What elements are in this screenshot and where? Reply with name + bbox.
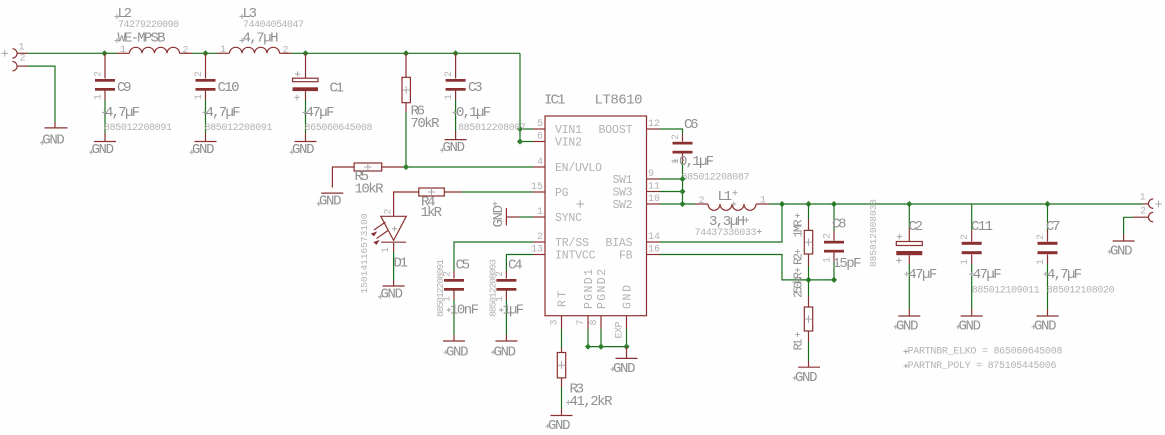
pin TR/SS (2)	[533, 232, 589, 250]
capacitor C6	[671, 117, 750, 184]
svg-text:885012208091: 885012208091	[104, 123, 172, 134]
inductor L3	[217, 6, 304, 57]
svg-text:41,2kR: 41,2kR	[570, 394, 614, 410]
svg-text:C1: C1	[330, 81, 345, 97]
wire input pin1 to rail	[28, 52, 105, 54]
node junction FB-R2	[805, 277, 811, 283]
svg-text:2: 2	[671, 134, 682, 140]
svg-text:1: 1	[960, 259, 971, 265]
svg-text:SW3: SW3	[613, 186, 633, 199]
pin SW3 (11)	[613, 182, 661, 200]
node junction rail-C8	[831, 201, 837, 207]
wire rail seg1	[105, 52, 118, 54]
svg-text:PG: PG	[555, 187, 569, 200]
svg-text:GND: GND	[959, 319, 982, 335]
pin SW2 (10)	[613, 194, 661, 212]
svg-text:885012208091: 885012208091	[205, 123, 273, 134]
svg-text:C9: C9	[117, 80, 132, 96]
resistor R6	[402, 53, 440, 167]
svg-text:1MR: 1MR	[792, 220, 806, 238]
svg-text:2: 2	[283, 46, 289, 57]
svg-text:885012208093: 885012208093	[487, 259, 498, 317]
node junction rail-C7	[1044, 201, 1050, 207]
pin GND (EXP) bottom	[615, 285, 635, 339]
node junction SW2	[679, 201, 685, 207]
capacitor C9	[89, 53, 172, 158]
svg-text:PGND1: PGND1	[583, 269, 596, 309]
svg-text:2: 2	[699, 196, 705, 207]
wire BIAS to rail	[660, 204, 783, 242]
svg-text:4: 4	[537, 157, 543, 168]
IC U1 regulator IC1 LT8610 box	[544, 93, 647, 316]
svg-text:GND: GND	[621, 285, 634, 309]
svg-text:LT8610: LT8610	[595, 93, 643, 109]
svg-text:4,7µH: 4,7µH	[243, 31, 279, 47]
svg-text:1: 1	[537, 207, 543, 218]
svg-text:2: 2	[1140, 206, 1146, 217]
svg-text:2: 2	[537, 232, 543, 243]
svg-text:2: 2	[94, 71, 105, 77]
svg-text:D1: D1	[394, 256, 409, 272]
svg-text:11: 11	[648, 182, 660, 193]
svg-text:FB: FB	[619, 249, 633, 262]
svg-text:74437336033: 74437336033	[695, 228, 757, 239]
svg-text:2: 2	[384, 208, 395, 214]
ground D1	[378, 280, 405, 303]
svg-text:VIN2: VIN2	[555, 136, 582, 149]
svg-text:2: 2	[183, 46, 189, 57]
svg-text:GND: GND	[319, 194, 342, 210]
svg-text:SW2: SW2	[613, 199, 633, 212]
pin SW1 (9)	[613, 169, 660, 187]
node junction rail-C1	[302, 50, 308, 56]
svg-text:885012208087: 885012208087	[682, 173, 750, 184]
capacitor C4	[487, 258, 524, 361]
svg-text:PARTNBR_ELKO = 865060645008: PARTNBR_ELKO = 865060645008	[908, 347, 1063, 358]
svg-text:885012108020: 885012108020	[1047, 286, 1115, 297]
svg-text:15: 15	[531, 182, 543, 193]
svg-text:1: 1	[381, 247, 392, 253]
wire FB to divider	[660, 255, 809, 280]
capacitor C11	[956, 204, 1040, 335]
ground R3	[546, 409, 573, 434]
wire SW vertical	[683, 179, 696, 204]
wire TR/SS	[454, 242, 533, 271]
svg-text:C3: C3	[468, 80, 483, 96]
svg-text:2: 2	[444, 71, 455, 77]
wire rail seg2	[192, 52, 217, 54]
wire rail down to VIN	[519, 53, 521, 141]
resistor R4	[394, 188, 462, 221]
svg-text:GND: GND	[42, 132, 65, 148]
svg-text:1: 1	[444, 94, 455, 100]
node junction VIN1	[517, 126, 523, 132]
pin SYNC (1)	[533, 207, 582, 225]
svg-text:74404054047: 74404054047	[243, 20, 304, 31]
ground EXP	[611, 347, 638, 377]
ground R5	[317, 193, 344, 209]
svg-text:74279220090: 74279220090	[118, 20, 179, 31]
svg-text:SYNC: SYNC	[555, 212, 582, 225]
node junction PGND2	[598, 344, 604, 350]
svg-text:GND: GND	[491, 205, 507, 228]
svg-text:15014116573100: 15014116573100	[359, 213, 370, 293]
node junction rail-R2	[805, 201, 811, 207]
svg-text:1: 1	[760, 196, 766, 207]
svg-text:C10: C10	[218, 80, 240, 96]
svg-text:GND: GND	[1034, 319, 1057, 335]
svg-text:2: 2	[823, 233, 834, 239]
svg-text:4,7µF: 4,7µF	[1047, 267, 1082, 283]
svg-text:1: 1	[19, 42, 25, 53]
svg-text:INTVCC: INTVCC	[555, 249, 596, 262]
resistor R2	[792, 204, 813, 280]
node junction rail-R6	[403, 50, 409, 56]
svg-text:TR/SS: TR/SS	[555, 237, 589, 250]
connector X1 input	[2, 42, 29, 71]
svg-text:PARTNR_POLY = 875105445006: PARTNR_POLY = 875105445006	[908, 361, 1057, 372]
svg-text:C11: C11	[971, 219, 993, 235]
svg-text:VIN1: VIN1	[555, 124, 582, 137]
wire SW2	[660, 203, 683, 205]
note PARTNBR_ELKO	[904, 347, 1063, 358]
node junction rail-C9	[101, 50, 107, 56]
pin RT (3) bottom	[550, 291, 570, 329]
ground R1	[793, 361, 821, 386]
svg-text:SW1: SW1	[613, 174, 633, 187]
note PARTNR_POLY	[904, 361, 1057, 372]
connector X2 output	[1133, 193, 1162, 222]
svg-text:1: 1	[120, 45, 126, 56]
pin PGND2 (8) bottom	[589, 269, 609, 329]
svg-text:885012208091: 885012208091	[435, 259, 446, 317]
svg-text:70kR: 70kR	[411, 116, 441, 132]
wire SW3	[660, 191, 683, 193]
pin PG (15)	[531, 182, 569, 200]
svg-text:1: 1	[194, 94, 205, 100]
svg-text:10nF: 10nF	[450, 303, 479, 319]
capacitor C1 polarized	[290, 53, 373, 158]
svg-text:GND: GND	[795, 370, 818, 386]
svg-text:5: 5	[537, 119, 543, 130]
svg-text:GND: GND	[446, 345, 469, 361]
svg-text:R1: R1	[792, 339, 806, 351]
resistor R5	[332, 163, 406, 198]
svg-text:4,7µF: 4,7µF	[206, 105, 241, 121]
svg-text:1: 1	[220, 45, 226, 56]
wire VIN2 stub	[520, 141, 533, 143]
node junction rail-C2	[906, 201, 912, 207]
pin EN/UVLO (4)	[533, 157, 602, 175]
svg-text:250kR: 250kR	[792, 272, 806, 298]
wire VIN1 stub	[520, 128, 533, 130]
capacitor C10	[190, 53, 273, 158]
ground input	[40, 122, 68, 148]
capacitor C2 polarized	[894, 204, 938, 335]
node junction rail-BIAS	[779, 201, 785, 207]
svg-text:GND: GND	[613, 361, 636, 377]
wire input pin2 to GND	[28, 66, 55, 122]
pin VIN2 (6)	[533, 132, 582, 150]
LED D1	[359, 208, 408, 293]
svg-text:2: 2	[960, 234, 971, 240]
svg-text:GND: GND	[494, 345, 517, 361]
wire rail seg3	[292, 52, 520, 54]
wire output pin2 to GND	[1124, 217, 1134, 234]
svg-text:16: 16	[648, 245, 660, 256]
svg-text:EN/UVLO: EN/UVLO	[555, 162, 602, 175]
node junction PGND1	[585, 344, 591, 350]
wire FB node horizontal	[809, 279, 835, 281]
pin BOOST (12)	[599, 119, 661, 137]
svg-text:GND: GND	[192, 142, 215, 158]
capacitor C3	[440, 53, 526, 156]
node junction EXP	[623, 344, 629, 350]
wire Vout rail	[769, 203, 1144, 205]
svg-text:2: 2	[194, 71, 205, 77]
svg-text:1µF: 1µF	[503, 303, 525, 319]
svg-text:0,1µF: 0,1µF	[679, 154, 714, 170]
svg-text:6: 6	[537, 132, 543, 143]
svg-text:GND: GND	[292, 142, 315, 158]
svg-text:2: 2	[20, 53, 26, 64]
svg-text:GND: GND	[1110, 244, 1133, 260]
svg-text:3: 3	[550, 319, 561, 325]
pin BIAS (14)	[606, 232, 661, 250]
svg-text:47µF: 47µF	[306, 105, 335, 121]
inductor L1	[695, 189, 769, 239]
wire SW1	[660, 178, 683, 180]
svg-text:1kR: 1kR	[421, 205, 443, 221]
svg-text:4,7µF: 4,7µF	[105, 105, 140, 121]
node junction SW1	[679, 176, 685, 182]
wire PGND1/PGND2/EXP to gnd	[588, 329, 627, 347]
svg-text:C4: C4	[508, 258, 523, 274]
capacitor C8	[823, 199, 880, 280]
svg-text:0,1µF: 0,1µF	[456, 105, 491, 121]
wire INTVCC	[506, 255, 533, 272]
svg-text:1: 1	[1140, 193, 1146, 204]
svg-text:WE-MPSB: WE-MPSB	[118, 31, 166, 47]
svg-text:13: 13	[531, 245, 543, 256]
ground SYNC rotated	[491, 201, 533, 227]
svg-text:8: 8	[589, 319, 600, 325]
svg-text:865060645008: 865060645008	[305, 123, 373, 134]
svg-text:GND: GND	[381, 287, 404, 303]
node junction SW3	[679, 188, 685, 194]
node junction FB-C8	[831, 277, 837, 283]
svg-text:GND: GND	[548, 418, 571, 434]
svg-text:GND: GND	[443, 140, 466, 156]
svg-text:10: 10	[648, 194, 660, 205]
svg-text:15pF: 15pF	[833, 256, 862, 272]
svg-text:GND: GND	[896, 319, 919, 335]
svg-text:C7: C7	[1046, 219, 1061, 235]
svg-text:14: 14	[648, 232, 660, 243]
svg-text:C8: C8	[832, 217, 847, 233]
node junction VIN2	[517, 138, 523, 144]
svg-text:9: 9	[648, 169, 654, 180]
node junction EN	[403, 164, 409, 170]
capacitor C7	[1032, 204, 1115, 335]
svg-text:GND: GND	[92, 142, 115, 158]
pin FB (16)	[619, 245, 660, 263]
svg-text:47µF: 47µF	[908, 267, 937, 283]
svg-text:10kR: 10kR	[355, 182, 385, 198]
svg-text:BIAS: BIAS	[606, 237, 633, 250]
capacitor C5	[435, 258, 479, 361]
svg-text:PGND2: PGND2	[596, 269, 609, 309]
svg-text:12: 12	[648, 119, 660, 130]
svg-text:R2: R2	[792, 253, 806, 265]
wire EN/UVLO	[406, 166, 533, 168]
resistor R3	[557, 348, 613, 410]
svg-text:1: 1	[1036, 259, 1047, 265]
node junction rail-C3	[453, 50, 459, 56]
svg-text:C6: C6	[684, 117, 699, 133]
ground output	[1108, 235, 1135, 260]
svg-text:C2: C2	[909, 219, 924, 235]
svg-text:1: 1	[94, 94, 105, 100]
wire PG	[462, 191, 533, 193]
resistor R1	[792, 268, 813, 361]
svg-text:BOOST: BOOST	[599, 124, 633, 137]
svg-text:885012208007: 885012208007	[458, 123, 526, 134]
wire BOOST to C6	[660, 129, 683, 134]
node junction rail-C10	[202, 50, 208, 56]
svg-text:EXP: EXP	[615, 322, 626, 339]
wire RT to R3	[561, 329, 563, 349]
pin INTVCC (13)	[531, 245, 596, 263]
pin PGND1 (7) bottom	[576, 269, 596, 329]
svg-text:47µF: 47µF	[973, 267, 1002, 283]
svg-text:IC1: IC1	[544, 93, 566, 109]
inductor L2	[115, 6, 193, 57]
svg-text:885012008038: 885012008038	[868, 199, 879, 267]
pin VIN1 (5)	[533, 119, 582, 137]
svg-text:7: 7	[576, 319, 587, 325]
svg-text:C5: C5	[456, 258, 471, 274]
svg-text:885012109011: 885012109011	[972, 286, 1040, 297]
svg-text:L1: L1	[718, 189, 733, 205]
